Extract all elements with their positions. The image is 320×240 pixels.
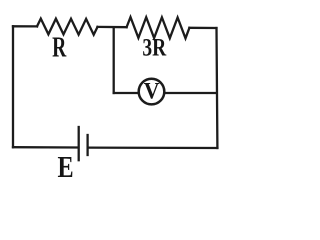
wire: bottom-right segment from battery <box>89 146 218 149</box>
wire: voltmeter branch left segment <box>114 92 138 94</box>
svg-text:V: V <box>144 78 160 104</box>
battery E : short plate <box>86 135 88 155</box>
wire: top middle segment (node between R and 3R) <box>98 26 127 29</box>
wire: voltmeter branch right segment <box>165 92 217 94</box>
battery E : long plate <box>78 127 80 160</box>
svg-text:E: E <box>58 150 74 185</box>
svg-text:3R: 3R <box>142 33 167 61</box>
wire: right side of loop <box>215 28 218 148</box>
wire: bottom-left segment to battery <box>13 146 78 149</box>
resistor 3R <box>127 17 190 38</box>
voltmeter V : circle <box>139 79 165 105</box>
svg-text:R: R <box>52 32 67 63</box>
wire: top-left segment <box>13 25 37 27</box>
wire: vertical drop from node to voltmeter branch <box>113 27 115 93</box>
wire: top-right segment <box>189 27 216 30</box>
wire: left side of loop <box>12 26 14 147</box>
resistor R <box>37 19 98 35</box>
